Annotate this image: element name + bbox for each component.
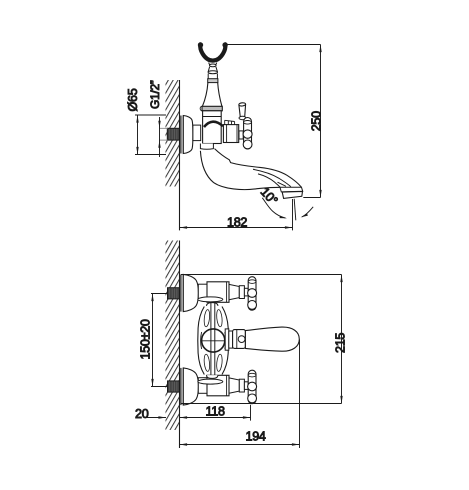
wall hatching (plan view) (166, 241, 180, 431)
center side arcs (201, 332, 226, 349)
10 deg leader arc left (262, 198, 285, 218)
bonnet washer (239, 131, 243, 139)
ext line spout tip (292, 199, 294, 230)
ref line top (181, 274, 342, 276)
dim 250 line (320, 45, 322, 198)
aerator body (282, 192, 302, 199)
svg-text:150±20: 150±20 (139, 319, 153, 359)
lower valve: small cylinder (239, 379, 244, 392)
lower valve: escutcheon dome (183, 368, 198, 405)
center vase outline (198, 307, 229, 375)
ext line handle center (250, 405, 252, 421)
center body bottom cap ellipse (198, 379, 223, 384)
cross handle bar (244, 118, 252, 150)
collar ring (202, 106, 222, 111)
lever paddle (245, 327, 299, 351)
spout upper edge (215, 149, 302, 188)
spout bend inner line (258, 174, 280, 187)
escutcheon dome (183, 116, 193, 154)
svg-text:20: 20 (135, 407, 149, 421)
lever socket (233, 330, 246, 349)
lower valve: neck (198, 378, 207, 394)
lower valve: cross handle bar (248, 370, 256, 404)
dim 150+-20 extension lines (151, 293, 168, 295)
dim 118 line (180, 417, 251, 419)
lever plate (225, 329, 229, 350)
aerator collar (280, 187, 303, 192)
wall hatching (side view) (166, 80, 180, 187)
cross handle arm (up) (239, 104, 246, 117)
dim 194 line (180, 444, 300, 446)
body bottom cap (200, 144, 213, 150)
ref line fork top (225, 44, 320, 46)
top view dimensions (126, 45, 323, 231)
body arch (204, 122, 223, 127)
center mid line (202, 340, 225, 342)
center body top saucer (207, 303, 218, 306)
center ball circle (202, 329, 225, 352)
upper valve: cone (229, 284, 239, 299)
dim Ø65 line (137, 115, 139, 155)
dim 182 line (180, 227, 293, 229)
wall face line (179, 80, 181, 230)
lower valve: escutcheon flange (180, 368, 182, 405)
ref line spout bottom (303, 197, 320, 199)
dim 150+-20 line (152, 294, 154, 387)
svg-text:182: 182 (227, 215, 247, 229)
threaded connection upper (168, 288, 180, 299)
dim Ø65 extension lines (135, 114, 166, 116)
svg-text:118: 118 (206, 404, 225, 418)
center body bottom saucer (207, 375, 218, 378)
lower valve: cone (229, 378, 239, 393)
center vase leaves (203, 309, 210, 327)
svg-text:215: 215 (333, 333, 347, 353)
dim 215 line (341, 275, 343, 404)
upper valve: escutcheon dome (183, 274, 198, 311)
spout seam (278, 182, 287, 186)
upper valve: neck (198, 284, 207, 300)
10 deg direction line (294, 199, 296, 221)
shower-hook fork (200, 44, 225, 60)
center rod (210, 303, 212, 379)
upper valve: escutcheon flange (180, 274, 182, 311)
upper valve: small cylinder (239, 286, 244, 299)
dim G1/2 line (159, 117, 161, 157)
bottom view dimensions (135, 275, 347, 449)
escutcheon flange (180, 116, 182, 154)
escutcheon neck (193, 125, 201, 141)
upper valve: body (207, 282, 229, 303)
valve bonnet (223, 125, 238, 143)
center body top cap ellipse (198, 297, 223, 302)
dim 20 tail (147, 417, 166, 419)
stem flare (208, 67, 217, 72)
ring band upper (208, 79, 218, 83)
threaded wall connection G1/2 (167, 128, 179, 140)
upper valve: cross handle bar (248, 277, 256, 311)
lower valve: stem (244, 382, 248, 390)
lever step (229, 331, 233, 348)
svg-text:194: 194 (246, 429, 266, 443)
bottle neck (202, 83, 222, 107)
upper valve: stem (244, 288, 248, 296)
ext line lever tip (299, 340, 301, 449)
svg-text:Ø65: Ø65 (126, 88, 140, 111)
valve bonnet collar (225, 120, 235, 126)
dim G1/2 extension lines (159, 127, 168, 129)
body cylinder (203, 111, 222, 144)
wall face line (179, 241, 181, 449)
svg-text:G1/2”: G1/2” (148, 80, 162, 109)
svg-text:250: 250 (310, 111, 324, 131)
spout lower edge (200, 151, 280, 190)
threaded connection lower (168, 381, 180, 392)
stem cylinder (208, 74, 217, 79)
lower valve: body (207, 375, 229, 396)
spout bend middle line (253, 169, 291, 187)
fork stem (209, 63, 217, 65)
10 deg leader arc right (302, 207, 313, 217)
ref line bottom (181, 403, 342, 405)
